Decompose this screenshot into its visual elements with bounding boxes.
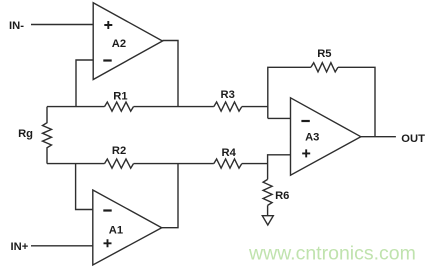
op-amp A3 (291, 98, 361, 175)
svg-text:A1: A1 (109, 225, 123, 237)
wire bottom line left segment (47, 163, 105, 165)
wire node to A3 - input (268, 117, 291, 119)
svg-text:A3: A3 (305, 131, 319, 143)
wire A3 output to OUT (361, 136, 396, 138)
wire top line middle segment (134, 106, 214, 108)
svg-text:R5: R5 (317, 48, 331, 60)
resistor R4 (214, 159, 242, 168)
svg-text:R3: R3 (221, 89, 235, 101)
resistor R3 (214, 102, 242, 111)
svg-text:R2: R2 (112, 145, 126, 157)
wire top line right segment to node (242, 106, 268, 108)
wire IN+ to A1 + input (31, 245, 93, 247)
A2 plus input symbol (104, 21, 112, 29)
svg-text:Rg: Rg (18, 128, 33, 140)
wire A1 - input to bottom line (76, 164, 93, 210)
wire A2 - input to top node (76, 60, 93, 107)
op-amp A2 (93, 3, 162, 80)
resistor R1 (105, 102, 134, 111)
A3 plus input symbol (302, 149, 310, 157)
wire top line left segment (47, 106, 105, 108)
resistor R5 (311, 63, 338, 72)
ground (262, 216, 273, 225)
resistor R2 (105, 159, 134, 168)
wire bottom line middle segment (134, 163, 214, 165)
svg-text:R4: R4 (222, 147, 237, 159)
wire A1 output to bottom line (162, 164, 178, 228)
A3 minus input symbol (301, 120, 309, 122)
svg-text:A2: A2 (112, 38, 126, 50)
resistor Rg (43, 107, 52, 164)
svg-text:OUT: OUT (401, 133, 425, 145)
A2 minus input symbol (103, 59, 111, 61)
wire bottom line right segment to node (242, 163, 268, 165)
svg-text:R1: R1 (113, 91, 127, 103)
wire node to R5 left leg (268, 67, 311, 118)
op-amp A1 (93, 190, 162, 265)
wire R6 to ground (267, 205, 269, 215)
wire node to A3 + input (268, 155, 291, 180)
svg-text:IN-: IN- (9, 20, 24, 32)
svg-text:IN+: IN+ (11, 241, 29, 253)
svg-text:R6: R6 (275, 190, 289, 202)
resistor R6 (263, 179, 272, 205)
A1 minus input symbol (103, 209, 111, 211)
wire IN- to A2 + input (31, 24, 93, 26)
svg-text:www.cntronics.com: www.cntronics.com (248, 243, 416, 265)
wire R5 right leg to output (338, 67, 375, 136)
A1 plus input symbol (104, 239, 112, 247)
wire A2 output to top line (163, 41, 179, 107)
